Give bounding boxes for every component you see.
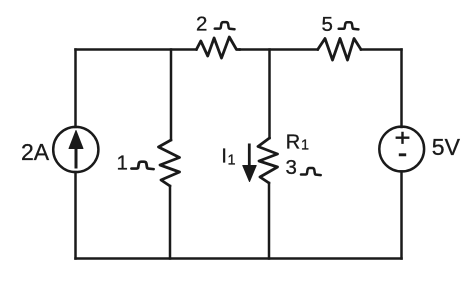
wire left vertical upper (node A to current source)	[74, 50, 77, 128]
resistor 1 ohm (vertical zigzag)	[159, 140, 180, 186]
current source I=2A (circle with up arrow)	[53, 127, 98, 172]
ohm symbol for resistor 2	[215, 22, 235, 29]
wire node C vertical lower lead (resistor R1 to bottom)	[268, 183, 271, 259]
resistor 5 ohm (top horizontal zigzag)	[318, 39, 361, 61]
svg-text:1: 1	[117, 152, 128, 175]
label I1 (current name)	[221, 145, 235, 169]
wire right vertical upper (node D to voltage source)	[400, 50, 403, 128]
svg-text:1: 1	[228, 153, 236, 169]
svg-text:5: 5	[322, 13, 333, 36]
wire top-right segment (resistor 5 to node D)	[361, 48, 402, 51]
wire bottom (ground net)	[76, 257, 402, 260]
wire top-middle segment (resistor 2 to resistor 5)	[240, 48, 318, 51]
svg-text:2A: 2A	[21, 139, 50, 165]
svg-text:3: 3	[286, 156, 297, 179]
wire node B vertical upper lead (top wire to resistor 1)	[170, 50, 173, 141]
resistor 2 ohm (top horizontal zigzag)	[196, 37, 240, 58]
current arrow I1 (downward)	[243, 144, 256, 182]
svg-text:5V: 5V	[432, 134, 461, 160]
ohm symbol for resistor R1	[301, 168, 321, 175]
wire node C vertical upper lead (top wire to resistor R1)	[268, 50, 271, 139]
svg-text:I: I	[221, 145, 227, 168]
ohm symbol for resistor 1	[132, 162, 154, 169]
voltage source V=5V (circle with plus minus)	[379, 127, 424, 172]
svg-text:1: 1	[301, 137, 309, 153]
label R1 (reference designator)	[286, 132, 309, 154]
svg-text:R: R	[286, 132, 300, 154]
resistor R1 = 3 ohm (vertical zigzag)	[258, 138, 278, 183]
ohm symbol for resistor 5	[339, 22, 359, 29]
wire node B vertical lower lead (resistor 1 to bottom)	[169, 186, 172, 259]
wire top-left segment (node A to resistor 2)	[76, 48, 197, 51]
wire right vertical lower (voltage source to bottom)	[400, 172, 403, 259]
svg-text:2: 2	[196, 13, 207, 36]
wire left vertical lower (current source to bottom)	[74, 172, 77, 259]
